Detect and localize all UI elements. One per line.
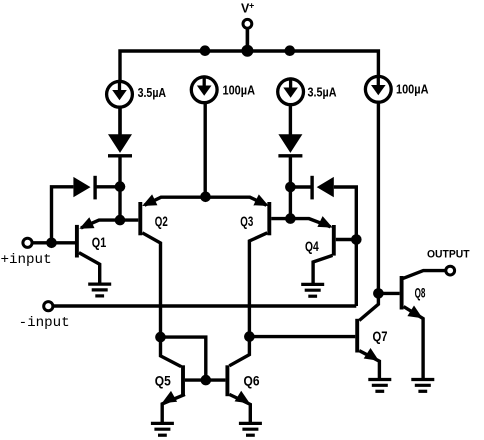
- transistor Q8 base bar: [400, 276, 404, 310]
- ground Q4: [301, 283, 324, 286]
- wire Q3 base: [271, 217, 290, 220]
- svg-text:100µA: 100µA: [223, 84, 256, 98]
- current source I1 3.5uA: [107, 81, 133, 107]
- ground Q1: [88, 283, 111, 286]
- wire Q2 emitter (from tail): [145, 197, 206, 205]
- node L (Q6 collector): [244, 331, 255, 342]
- transistor Q3 base bar: [267, 202, 271, 235]
- node rail-I3: [285, 45, 296, 56]
- node B (Q1 emitter / Q2 base): [115, 215, 126, 226]
- arrow Q7 emitter (NPN): [364, 348, 379, 361]
- wire node A to D3: [97, 185, 121, 188]
- wire Q5 collector: [161, 337, 182, 367]
- wire Q1 collector: [79, 253, 100, 284]
- node G (Q4 base tap): [351, 234, 362, 245]
- wire V+ rail: [120, 51, 378, 134]
- svg-text:Q8: Q8: [415, 286, 426, 301]
- arrow Q4 emitter (PNP): [317, 216, 332, 228]
- terminal V+: [243, 19, 252, 28]
- svg-text:Q1: Q1: [92, 235, 107, 250]
- terminal +input: [23, 238, 32, 247]
- wire Q6 collector: [229, 337, 249, 366]
- wire V+ stub: [246, 29, 250, 51]
- node K (mirror bases): [201, 375, 212, 386]
- node D (Q3 base / Q4 emitter): [285, 213, 296, 224]
- wire Q7 collector: [359, 293, 378, 320]
- svg-text:+: +: [249, 0, 254, 10]
- transistor Q5 base bar: [181, 365, 185, 396]
- arrow Q2 emitter (PNP): [142, 194, 157, 206]
- node A (left diode junction): [115, 181, 126, 192]
- wire Q5 emitter: [162, 394, 185, 423]
- arrow Q5 emitter (NPN): [162, 391, 177, 403]
- current source I2 100uA: [191, 77, 217, 103]
- svg-text:3.5µA: 3.5µA: [308, 85, 337, 99]
- node H (+input / D3): [46, 238, 57, 249]
- diode D4 (points left): [317, 177, 334, 197]
- wire Q6 emitter: [229, 394, 250, 423]
- wire I3 to D2: [289, 105, 292, 136]
- diode D2: [278, 134, 302, 153]
- svg-text:Q2: Q2: [155, 214, 168, 229]
- wire Q8 base: [378, 292, 399, 295]
- transistor Q4 base bar: [332, 225, 336, 256]
- svg-text:+input: +input: [1, 252, 52, 268]
- wire node C to D4: [290, 185, 313, 188]
- ground Q6: [239, 422, 262, 425]
- wire D1 to node A: [118, 158, 121, 222]
- arrow Q1 emitter (PNP): [79, 217, 94, 229]
- current source I4 100uA: [365, 76, 391, 102]
- svg-text:Q7: Q7: [373, 329, 388, 344]
- diode D3 (points right): [73, 177, 90, 197]
- wire Q5-Q6 base line: [185, 378, 225, 381]
- node C (right diode junction): [285, 182, 296, 193]
- wire D2 to node C: [289, 158, 292, 221]
- node E (tail node): [200, 192, 211, 203]
- wire Q7 emitter: [359, 351, 379, 379]
- terminal -input: [44, 302, 53, 311]
- ground Q7: [368, 378, 391, 381]
- wire Q8 emitter: [404, 307, 424, 379]
- wire Q4 base: [336, 238, 357, 241]
- svg-text:-input: -input: [19, 315, 70, 331]
- arrow Q3 emitter (PNP): [254, 194, 269, 206]
- svg-text:Q4: Q4: [305, 239, 319, 254]
- wire Q3 emitter (from tail): [206, 197, 267, 205]
- wire Q8 collector: [403, 271, 446, 279]
- wire I4 down to node F: [377, 102, 380, 293]
- wire Q3 collector: [249, 233, 267, 337]
- svg-text:OUTPUT: OUTPUT: [427, 249, 470, 261]
- ground Q8: [411, 378, 434, 381]
- svg-text:3.5µA: 3.5µA: [138, 86, 167, 100]
- wire Q5 collector-base link: [161, 337, 206, 380]
- arrow Q8 emitter (NPN): [407, 306, 422, 319]
- svg-text:100µA: 100µA: [396, 83, 429, 97]
- wire Q4 emitter: [290, 219, 330, 227]
- node rail-V+: [241, 45, 253, 57]
- ground Q5: [151, 422, 174, 425]
- node rail-I1: [200, 45, 211, 56]
- wire -input line: [53, 304, 356, 307]
- svg-text:Q5: Q5: [155, 374, 171, 389]
- wire +input to Q1 base: [32, 241, 75, 244]
- terminal OUTPUT: [446, 266, 455, 275]
- svg-text:Q6: Q6: [244, 374, 260, 389]
- transistor Q6 base bar: [225, 365, 229, 396]
- node F (Q7 collector / Q8 base): [373, 288, 384, 299]
- wire Q2 collector: [142, 233, 160, 337]
- transistor Q7 base bar: [355, 319, 359, 353]
- wire D4 to -input net: [334, 187, 357, 306]
- transistor Q1 base bar: [75, 225, 79, 258]
- wire Q6 collector to Q7 base: [249, 335, 355, 338]
- wire Q4 collector: [313, 255, 332, 284]
- wire Q2 base: [120, 218, 138, 221]
- wire D3 to +input net: [52, 187, 74, 243]
- wire I2 to emitter bus: [203, 103, 206, 197]
- node J (Q5 collector): [155, 332, 166, 343]
- wire Q1 emitter: [81, 220, 120, 228]
- current source I3 3.5uA: [278, 79, 304, 105]
- svg-text:Q3: Q3: [240, 214, 253, 229]
- transistor Q2 base bar: [138, 202, 142, 235]
- arrow Q6 emitter (NPN): [235, 391, 250, 404]
- diode D1: [108, 134, 132, 153]
- wire I1 to D1: [118, 108, 121, 136]
